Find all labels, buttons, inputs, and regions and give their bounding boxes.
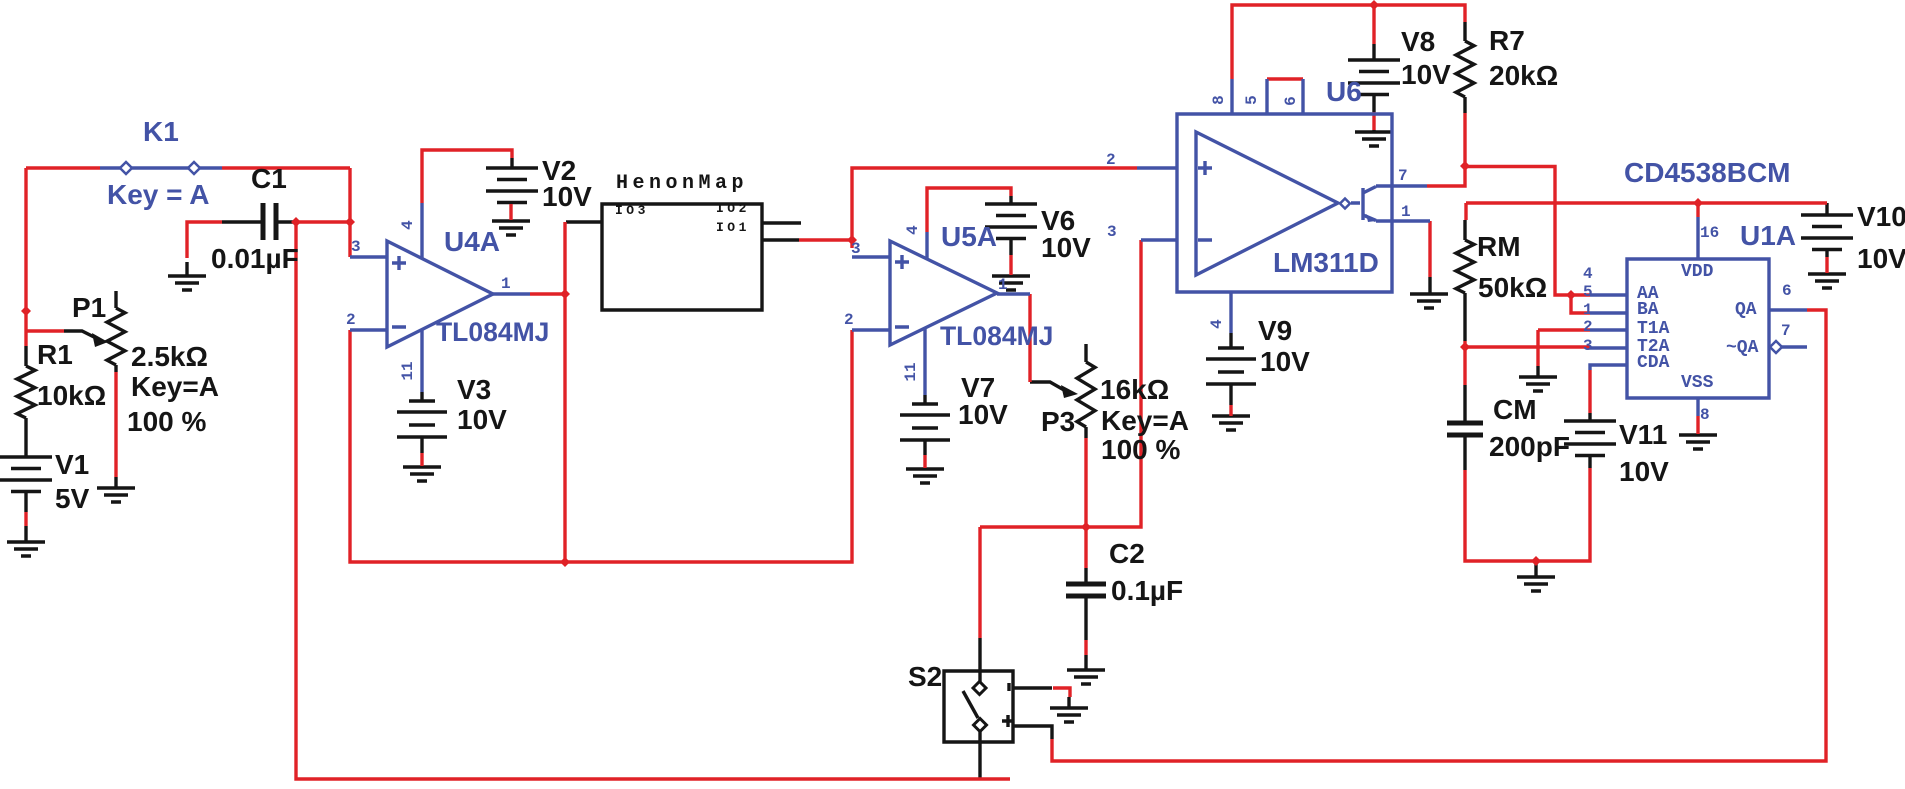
svg-text:VDD: VDD [1681,262,1714,282]
svg-text:1: 1 [501,275,511,293]
svg-text:Key = A: Key = A [107,179,209,210]
svg-text:1: 1 [1583,301,1593,319]
svg-text:Key=A: Key=A [1101,405,1189,436]
svg-text:3: 3 [1583,337,1593,355]
svg-text:2: 2 [346,311,356,329]
svg-text:IO2: IO2 [716,201,750,216]
svg-text:0.1µF: 0.1µF [1111,575,1183,606]
svg-text:8: 8 [1700,406,1710,424]
svg-text:V10: V10 [1857,201,1905,232]
svg-text:C1: C1 [251,163,287,194]
svg-text:2: 2 [844,311,854,329]
svg-text:QA: QA [1735,300,1757,320]
svg-text:5V: 5V [55,483,90,514]
svg-text:1: 1 [998,276,1008,294]
svg-text:2.5kΩ: 2.5kΩ [131,341,208,372]
svg-text:11: 11 [902,362,920,381]
svg-text:0.01µF: 0.01µF [211,243,299,274]
svg-text:S2: S2 [908,661,942,692]
svg-text:10V: 10V [457,404,507,435]
svg-text:P1: P1 [72,292,106,323]
svg-text:10V: 10V [1857,243,1905,274]
svg-text:16kΩ: 16kΩ [1100,374,1169,405]
svg-text:Key=A: Key=A [131,371,219,402]
svg-text:10V: 10V [958,399,1008,430]
svg-text:V8: V8 [1401,26,1435,57]
svg-text:10V: 10V [1401,59,1451,90]
svg-text:R7: R7 [1489,25,1525,56]
svg-text:2: 2 [1106,151,1116,169]
svg-text:C2: C2 [1109,538,1145,569]
svg-text:4: 4 [904,225,922,235]
svg-text:TL084MJ: TL084MJ [940,321,1053,351]
svg-text:U1A: U1A [1740,220,1796,251]
svg-text:3: 3 [851,240,861,258]
svg-text:16: 16 [1700,224,1719,242]
svg-text:V9: V9 [1258,315,1292,346]
svg-text:TL084MJ: TL084MJ [436,317,549,347]
svg-text:10kΩ: 10kΩ [37,380,106,411]
svg-text:CD4538BCM: CD4538BCM [1624,157,1791,188]
svg-text:50kΩ: 50kΩ [1478,272,1547,303]
svg-text:20kΩ: 20kΩ [1489,60,1558,91]
svg-text:10V: 10V [1619,456,1669,487]
svg-text:IO3: IO3 [615,203,649,218]
svg-text:T1A: T1A [1637,319,1670,339]
svg-text:3: 3 [351,238,361,256]
svg-text:7: 7 [1781,322,1791,340]
svg-text:4: 4 [1208,319,1226,329]
svg-text:7: 7 [1398,167,1408,185]
svg-text:10V: 10V [1041,232,1091,263]
svg-text:200pF: 200pF [1489,431,1570,462]
svg-text:RM: RM [1477,231,1521,262]
svg-text:LM311D: LM311D [1273,247,1379,278]
svg-text:10V: 10V [542,181,592,212]
svg-text:5: 5 [1243,95,1261,105]
svg-text:~QA: ~QA [1726,338,1759,358]
svg-text:6: 6 [1782,282,1792,300]
svg-text:4: 4 [399,220,417,230]
svg-text:U6: U6 [1326,76,1362,107]
svg-text:U5A: U5A [941,221,997,252]
svg-text:U4A: U4A [444,226,500,257]
svg-text:V3: V3 [457,374,491,405]
svg-text:6: 6 [1282,96,1300,106]
svg-text:K1: K1 [143,116,179,147]
svg-text:11: 11 [399,361,417,380]
svg-text:VSS: VSS [1681,373,1714,393]
svg-text:10V: 10V [1260,346,1310,377]
svg-text:100 %: 100 % [1101,434,1180,465]
svg-text:CDA: CDA [1637,353,1670,373]
svg-text:R1: R1 [37,339,73,370]
svg-text:IO1: IO1 [716,220,750,235]
svg-text:P3: P3 [1041,406,1075,437]
svg-text:HenonMap: HenonMap [616,172,748,195]
svg-text:CM: CM [1493,394,1537,425]
svg-text:BA: BA [1637,300,1659,320]
svg-text:3: 3 [1107,223,1117,241]
svg-text:8: 8 [1210,95,1228,105]
svg-text:4: 4 [1583,265,1593,283]
svg-text:V11: V11 [1619,419,1667,450]
svg-text:2: 2 [1583,318,1593,336]
svg-text:1: 1 [1401,203,1411,221]
svg-text:V1: V1 [55,449,89,480]
svg-text:5: 5 [1583,283,1593,301]
svg-text:100 %: 100 % [127,406,206,437]
